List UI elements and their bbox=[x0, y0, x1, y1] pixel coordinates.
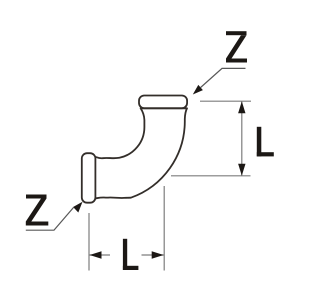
left flange bbox=[82, 153, 96, 203]
arrowhead down bbox=[238, 164, 245, 176]
arrowhead right bbox=[152, 251, 164, 258]
extension line left (bottom dimension) bbox=[88, 213, 90, 271]
elbow body outline bbox=[95, 108, 187, 198]
label L bottom bbox=[123, 239, 138, 270]
horizontal dimension line L right segment bbox=[142, 254, 164, 256]
arrowhead up bbox=[238, 101, 245, 113]
label Z top right bbox=[226, 31, 247, 62]
extension line top (right dimension) bbox=[200, 100, 251, 102]
horizontal dimension line L left segment bbox=[89, 254, 110, 256]
label L right bbox=[257, 127, 274, 157]
label Z bottom left bbox=[26, 195, 49, 226]
extension line right (bottom dimension) bbox=[163, 186, 165, 271]
extension line bottom (right dimension) bbox=[171, 175, 251, 177]
leader line Z top bbox=[201, 68, 246, 87]
leader arrowhead Z top bbox=[193, 85, 203, 95]
top flange bbox=[139, 96, 187, 109]
vertical dimension line L bbox=[241, 101, 243, 176]
leader arrowhead Z bottom bbox=[73, 202, 82, 213]
arrowhead left bbox=[90, 251, 102, 258]
leader line Z bottom bbox=[26, 208, 74, 231]
